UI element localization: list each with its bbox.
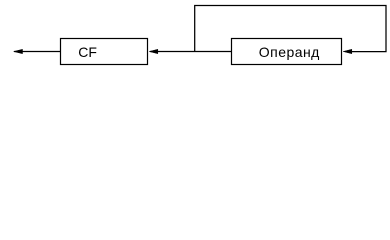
wire: CF output to far left [14, 51, 61, 53]
box Операнд (operand register) [232, 39, 342, 65]
arrowhead into CF right side [149, 49, 158, 53]
svg-text:Операнд: Операнд [259, 44, 320, 60]
svg-text:CF: CF [78, 44, 97, 60]
wire: Операнд output to CF (horizontal, with T-junction at x=195) [150, 51, 232, 53]
wire: feedback loop (up from junction, across top, down right side) [195, 6, 386, 52]
box CF (carry flag register) [61, 39, 148, 65]
arrowhead at far left (bit discarded / output) [14, 49, 23, 53]
arrowhead into Операнд right side [343, 49, 352, 53]
